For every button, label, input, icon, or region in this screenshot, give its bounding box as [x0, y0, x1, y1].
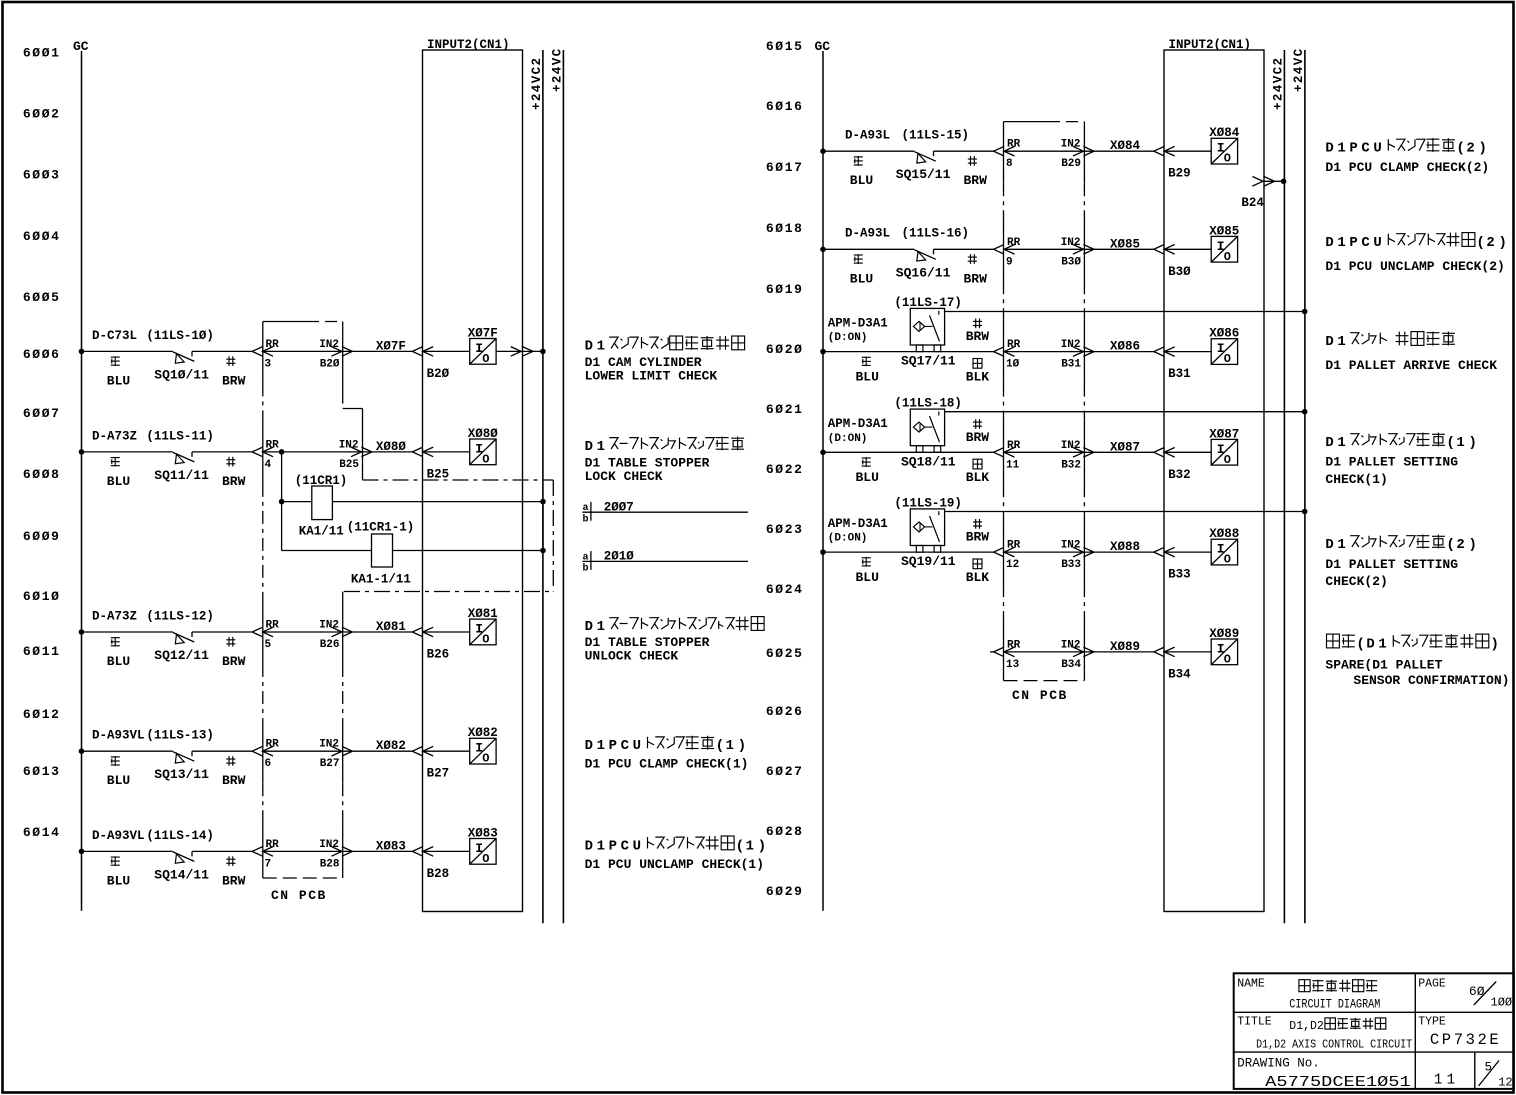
svg-text:1: 1 — [1456, 435, 1464, 451]
svg-text:XØ7F: XØ7F — [468, 326, 498, 340]
svg-text:(11LS-13): (11LS-13) — [146, 729, 214, 743]
svg-text:B29: B29 — [1168, 167, 1191, 181]
svg-text:(11LS-14): (11LS-14) — [146, 829, 214, 843]
wire into module — [423, 750, 470, 752]
svg-text:KA1-1/11: KA1-1/11 — [351, 573, 411, 587]
junction node b — [540, 548, 546, 554]
svg-text:C: C — [1361, 141, 1369, 157]
wire switch to RR connector — [192, 631, 252, 633]
wire GC to switch SQ11/11 — [82, 451, 173, 453]
junction GC bus row X081 — [79, 629, 85, 635]
svg-text:1: 1 — [746, 838, 754, 854]
module entry chevrons — [412, 627, 423, 637]
svg-text:O: O — [482, 352, 489, 366]
svg-text:O: O — [482, 752, 489, 766]
svg-text:XØ87: XØ87 — [1110, 440, 1140, 454]
svg-text:1: 1 — [597, 439, 605, 455]
svg-text:O: O — [1224, 352, 1231, 366]
svg-text:SQ17/11: SQ17/11 — [901, 354, 956, 369]
colour kanji 黒 — [973, 559, 982, 569]
wire to relay coil KA1-1/11 — [282, 550, 372, 552]
rail +24VC2 — [1283, 50, 1285, 923]
svg-text:KA1/11: KA1/11 — [299, 525, 344, 539]
limit switch SQ15/11 ((11LS-15)) — [914, 152, 935, 162]
svg-text:XØ81: XØ81 — [468, 607, 498, 621]
svg-text:SQ14/11: SQ14/11 — [154, 867, 209, 882]
wire into module — [1164, 248, 1211, 250]
junction GC bus row X082 — [79, 748, 85, 754]
I/O input point X07F — [470, 339, 496, 365]
svg-text:1: 1 — [597, 338, 605, 354]
svg-text:): ) — [1498, 235, 1507, 251]
wire RR to INPUT2 module — [262, 451, 412, 453]
svg-text:B27: B27 — [320, 758, 340, 770]
wire RR to INPUT2 module — [262, 850, 412, 852]
svg-text:B3Ø: B3Ø — [1168, 265, 1191, 279]
svg-text:1: 1 — [597, 619, 605, 635]
svg-text:SQ1Ø/11: SQ1Ø/11 — [154, 367, 209, 382]
svg-text:P: P — [609, 738, 617, 754]
module entry chevrons — [1154, 547, 1165, 557]
svg-text:XØ86: XØ86 — [1110, 340, 1140, 354]
connector RR pin 12 chevrons — [994, 547, 1005, 557]
connector IN2 pin B26 chevrons — [332, 627, 343, 637]
wire RR to INPUT2 module — [1004, 451, 1154, 453]
svg-text:6Ø15: 6Ø15 — [766, 39, 804, 54]
connector RR pin 4 chevrons — [252, 447, 263, 457]
svg-text:RR: RR — [266, 339, 280, 351]
wire RR to INPUT2 module (spare) — [1004, 651, 1154, 653]
I/O input point X080 — [470, 439, 496, 465]
svg-text:B31: B31 — [1168, 367, 1191, 381]
connector RR pin 8 chevrons — [994, 146, 1005, 156]
connector IN2 pin B20 chevrons — [332, 347, 343, 357]
title block frame — [1234, 973, 1514, 1089]
svg-text:D-C73L: D-C73L — [92, 329, 137, 343]
svg-text:6Ø17: 6Ø17 — [766, 160, 804, 175]
svg-text:INPUT2(CN1): INPUT2(CN1) — [427, 38, 510, 52]
svg-text:C: C — [621, 738, 629, 754]
svg-text:IN2: IN2 — [339, 439, 359, 451]
off-page reference 2010 — [590, 551, 592, 570]
relay coil KA1-1/11 (11CR1-1) — [372, 534, 393, 567]
svg-text:IN2: IN2 — [1061, 237, 1081, 249]
GC bus wire — [822, 51, 824, 911]
wire coil KA1/11 to junction — [332, 501, 543, 503]
svg-text:IN2: IN2 — [1061, 639, 1081, 651]
svg-text:D1 PCU CLAMP CHECK(2): D1 PCU CLAMP CHECK(2) — [1325, 160, 1489, 175]
svg-text:RR: RR — [1007, 339, 1021, 351]
svg-text:BLU: BLU — [107, 654, 130, 669]
svg-text:LOWER LIMIT CHECK: LOWER LIMIT CHECK — [585, 368, 718, 383]
svg-text:RR: RR — [1007, 237, 1021, 249]
svg-text:C: C — [621, 838, 629, 854]
connector IN2 pin B25 chevrons — [351, 447, 362, 457]
svg-text:1ØØ: 1ØØ — [1491, 996, 1513, 1010]
svg-text:(11LS-1Ø): (11LS-1Ø) — [146, 329, 214, 343]
svg-text:6ØØ8: 6ØØ8 — [23, 467, 61, 482]
svg-text:CN PCB: CN PCB — [1012, 688, 1068, 703]
GC bus wire — [81, 51, 83, 911]
svg-text:2Ø1Ø: 2Ø1Ø — [604, 550, 635, 564]
svg-text:IN2: IN2 — [319, 620, 339, 632]
svg-text:LOCK CHECK: LOCK CHECK — [585, 469, 663, 484]
svg-text:8: 8 — [1006, 158, 1013, 170]
svg-text:RR: RR — [1007, 139, 1021, 151]
svg-text:6Ø23: 6Ø23 — [766, 522, 804, 537]
svg-text:(11LS-15): (11LS-15) — [902, 129, 970, 143]
svg-text:6Ø26: 6Ø26 — [766, 704, 804, 719]
wire into module — [1164, 451, 1211, 453]
svg-text:XØ81: XØ81 — [376, 620, 406, 634]
svg-text:BLU: BLU — [856, 369, 879, 384]
svg-text:6ØØ5: 6ØØ5 — [23, 290, 61, 305]
connector IN2 pin B28 chevrons — [332, 847, 343, 857]
junction on +24VC rail — [1302, 309, 1308, 315]
I/O input point X081 — [470, 619, 496, 645]
svg-text:B26: B26 — [427, 648, 450, 662]
wire into module — [1164, 651, 1211, 653]
svg-text:D1 PALLET SETTING: D1 PALLET SETTING — [1325, 557, 1458, 572]
colour kanji 青 — [111, 856, 120, 858]
relay coil KA1/11 (11CR1) — [312, 486, 333, 520]
module entry chevrons — [1154, 448, 1165, 458]
limit switch SQ14/11 ((11LS-14)) — [173, 852, 194, 862]
svg-text:IN2: IN2 — [319, 339, 339, 351]
svg-text:XØ89: XØ89 — [1110, 640, 1140, 654]
svg-text:6Ø2Ø: 6Ø2Ø — [766, 342, 804, 357]
svg-text:6ØØ9: 6ØØ9 — [23, 529, 61, 544]
wire switch to RR connector — [934, 150, 994, 152]
svg-text:(: ( — [1446, 537, 1455, 553]
svg-text:XØ85: XØ85 — [1110, 237, 1140, 251]
svg-text:D-A93L: D-A93L — [845, 227, 890, 241]
svg-text:(11LS-17): (11LS-17) — [894, 296, 962, 310]
svg-text:CIRCUIT DIAGRAM: CIRCUIT DIAGRAM — [1289, 998, 1380, 1012]
svg-text:O: O — [482, 452, 489, 466]
connector RR pin 11 chevrons — [994, 448, 1005, 458]
junction GC bus row X080 — [79, 449, 85, 455]
svg-text:CN PCB: CN PCB — [271, 888, 327, 903]
svg-text:(D:ON): (D:ON) — [828, 332, 868, 344]
svg-text:D-A93L: D-A93L — [845, 129, 890, 143]
connector IN2 pin B33 chevrons — [1073, 547, 1084, 557]
svg-text:(: ( — [1356, 637, 1365, 653]
svg-text:B32: B32 — [1061, 459, 1081, 471]
svg-text:RR: RR — [266, 839, 280, 851]
svg-text:): ) — [1468, 435, 1477, 451]
svg-text:B33: B33 — [1168, 568, 1191, 582]
svg-text:XØ87: XØ87 — [1209, 427, 1239, 441]
svg-text:TYPE: TYPE — [1418, 1016, 1446, 1029]
svg-text:B27: B27 — [427, 767, 450, 781]
connector RR pin 7 chevrons — [252, 847, 263, 857]
svg-text:6Ø28: 6Ø28 — [766, 824, 804, 839]
svg-text:6: 6 — [265, 758, 272, 770]
svg-text:B26: B26 — [320, 639, 340, 651]
svg-text:): ) — [758, 838, 767, 854]
wire switch to RR connector — [192, 451, 252, 453]
svg-text:6ØØ1: 6ØØ1 — [23, 46, 61, 61]
svg-text:a: a — [583, 503, 589, 514]
wire GC to switch SQ15/11 — [823, 150, 914, 152]
svg-text:O: O — [1224, 453, 1231, 467]
svg-text:5: 5 — [265, 639, 272, 651]
svg-text:O: O — [1224, 250, 1231, 264]
off-page reference 2007 — [590, 502, 592, 521]
svg-text:(11LS-19): (11LS-19) — [894, 496, 962, 510]
CN PCB cable boundary (right half) — [1004, 121, 1049, 123]
svg-text:B34: B34 — [1168, 667, 1191, 681]
svg-text:(: ( — [1456, 141, 1465, 157]
colour kanji 茶 — [228, 356, 230, 366]
wire RR to INPUT2 module — [1004, 351, 1154, 353]
svg-text:b: b — [583, 514, 589, 526]
wire sensor BRW to +24VC rail — [945, 511, 1305, 513]
colour kanji 青 — [111, 457, 120, 459]
svg-text:XØ85: XØ85 — [1209, 224, 1239, 238]
wire GC through sensor SQ17/11 to RR — [823, 351, 994, 353]
svg-text:SENSOR CONFIRMATION): SENSOR CONFIRMATION) — [1353, 673, 1509, 688]
I/O input point X088 — [1211, 539, 1237, 565]
svg-text:6Ø16: 6Ø16 — [766, 99, 804, 114]
title 電気回路線図 — [1299, 980, 1310, 992]
wire linking relay outputs — [542, 502, 544, 551]
svg-text:1: 1 — [597, 738, 605, 754]
svg-text:BRW: BRW — [222, 373, 246, 388]
svg-text:XØ89: XØ89 — [1209, 627, 1239, 641]
svg-text:P: P — [609, 838, 617, 854]
svg-text:O: O — [1224, 152, 1231, 166]
I/O input point X086 — [1211, 339, 1237, 365]
svg-text:2: 2 — [1466, 141, 1474, 157]
rail +24VC2 — [542, 50, 544, 923]
wire switch to RR connector — [192, 850, 252, 852]
svg-text:BLU: BLU — [856, 570, 879, 585]
svg-text:XØ84: XØ84 — [1209, 126, 1240, 140]
fraction slash — [1474, 982, 1496, 1006]
svg-text:D-A73Z: D-A73Z — [92, 429, 137, 443]
svg-text:6Ø11: 6Ø11 — [23, 644, 61, 659]
junction B24 on +24VC2 — [1281, 179, 1287, 185]
svg-text:1: 1 — [1378, 637, 1386, 653]
svg-text:IN2: IN2 — [1061, 139, 1081, 151]
connector RR pin 3 chevrons — [252, 347, 263, 357]
svg-text:D1 PCU UNCLAMP CHECK(1): D1 PCU UNCLAMP CHECK(1) — [585, 857, 764, 872]
svg-text:B34: B34 — [1061, 659, 1081, 671]
wire RR to INPUT2 module — [262, 350, 412, 352]
svg-text:11: 11 — [1434, 1073, 1459, 1089]
svg-text:O: O — [1224, 553, 1231, 567]
svg-text:B25: B25 — [339, 459, 359, 471]
svg-text:(11LS-11): (11LS-11) — [146, 429, 214, 443]
colour kanji 青 — [854, 254, 863, 256]
svg-text:(: ( — [1476, 235, 1485, 251]
module entry chevrons — [412, 347, 423, 357]
I/O input point X082 — [470, 738, 496, 764]
svg-text:D1 PALLET SETTING: D1 PALLET SETTING — [1325, 455, 1458, 470]
svg-text:1: 1 — [597, 838, 605, 854]
svg-text:(: ( — [736, 838, 745, 854]
svg-text:6Ø25: 6Ø25 — [766, 646, 804, 661]
junction GC bus row X086 — [820, 349, 826, 355]
svg-text:DRAWING No.: DRAWING No. — [1237, 1056, 1320, 1070]
svg-text:A5775DCEE1Ø51: A5775DCEE1Ø51 — [1265, 1075, 1411, 1091]
svg-text:(11CR1): (11CR1) — [295, 474, 348, 488]
svg-text:BRW: BRW — [222, 773, 246, 788]
svg-text:6Ø18: 6Ø18 — [766, 221, 804, 236]
svg-text:D: D — [585, 838, 593, 854]
svg-text:1Ø: 1Ø — [1006, 359, 1020, 371]
svg-text:U: U — [1373, 235, 1381, 251]
svg-text:1: 1 — [1337, 235, 1345, 251]
svg-text:6Ø1Ø: 6Ø1Ø — [23, 589, 61, 604]
svg-text:5: 5 — [1485, 1061, 1493, 1075]
wire X07F to +24VC2 rail — [496, 350, 543, 352]
svg-text:SQ11/11: SQ11/11 — [154, 468, 209, 483]
svg-text:(D:ON): (D:ON) — [828, 533, 868, 545]
wire RR to INPUT2 module — [1004, 248, 1154, 250]
svg-text:1: 1 — [1337, 141, 1345, 157]
module entry chevrons — [1154, 347, 1165, 357]
colour kanji 茶 — [228, 856, 230, 866]
connector RR pin 9 chevrons — [994, 245, 1005, 255]
svg-text:6ØØ7: 6ØØ7 — [23, 406, 61, 421]
svg-text:APM-D3A1: APM-D3A1 — [828, 417, 888, 431]
svg-text:+24VC: +24VC — [550, 47, 564, 92]
svg-text:D1 PALLET ARRIVE CHECK: D1 PALLET ARRIVE CHECK — [1325, 358, 1497, 373]
wire into module — [423, 850, 470, 852]
chevrons to +24VC2 — [511, 347, 522, 357]
limit switch SQ13/11 ((11LS-13)) — [173, 752, 194, 762]
wire RR to INPUT2 module — [262, 750, 412, 752]
wire GC through sensor SQ19/11 to RR — [823, 551, 994, 553]
svg-text:+24VC2: +24VC2 — [530, 57, 544, 110]
wire GC to switch SQ10/11 — [82, 350, 173, 352]
wire into module — [423, 451, 470, 453]
svg-text:O: O — [482, 633, 489, 647]
wire RR to INPUT2 module — [1004, 551, 1154, 553]
connector IN2 pin B31 chevrons — [1073, 347, 1084, 357]
svg-text:6Ø24: 6Ø24 — [766, 582, 804, 597]
module entry chevrons — [412, 847, 423, 857]
svg-text:+24VC: +24VC — [1292, 47, 1306, 92]
svg-text:IN2: IN2 — [1061, 339, 1081, 351]
svg-text:D: D — [585, 738, 593, 754]
connector RR pin 5 chevrons — [252, 627, 263, 637]
junction relay branch — [279, 499, 285, 505]
module entry chevrons — [1154, 647, 1165, 657]
junction on +24VC rail — [1302, 509, 1308, 515]
junction GC bus row X088 — [820, 549, 826, 555]
svg-text:U: U — [1373, 141, 1381, 157]
svg-text:3: 3 — [265, 358, 272, 370]
wire switch to RR connector — [192, 750, 252, 752]
svg-text:XØ83: XØ83 — [376, 839, 406, 853]
connector IN2 pin B32 chevrons — [1073, 448, 1084, 458]
spare input row X089 — [990, 651, 994, 653]
svg-text:RR: RR — [1007, 639, 1021, 651]
svg-text:B33: B33 — [1061, 559, 1081, 571]
wire into module — [1164, 150, 1211, 152]
wire coil KA1-1/11 to junction — [393, 550, 544, 552]
svg-text:D: D — [1325, 537, 1333, 553]
svg-text:SQ19/11: SQ19/11 — [901, 554, 956, 569]
svg-text:(D:ON): (D:ON) — [828, 433, 868, 445]
CN PCB cable boundary (left half) — [263, 321, 307, 323]
wire RR to INPUT2 module — [1004, 150, 1154, 152]
fraction slash — [1479, 1061, 1500, 1087]
svg-text:6Ø22: 6Ø22 — [766, 462, 804, 477]
svg-text:(: ( — [1446, 435, 1455, 451]
junction on +24VC2 rail — [540, 349, 546, 355]
svg-text:BRW: BRW — [966, 329, 990, 344]
wire to relay coil KA1/11 — [282, 501, 312, 503]
connector RR pin 13 chevrons — [994, 647, 1005, 657]
svg-text:1: 1 — [726, 738, 734, 754]
junction GC bus row X084 — [820, 148, 826, 154]
limit switch SQ12/11 ((11LS-12)) — [173, 633, 194, 643]
svg-text:D1 PCU CLAMP CHECK(1): D1 PCU CLAMP CHECK(1) — [585, 757, 749, 772]
svg-text:XØ8Ø: XØ8Ø — [468, 427, 499, 441]
svg-text:+24VC2: +24VC2 — [1271, 57, 1285, 110]
junction row 6008 — [279, 449, 285, 455]
wire into module — [1164, 351, 1211, 353]
svg-text:BLU: BLU — [107, 373, 130, 388]
wire sensor BRW to +24VC rail — [945, 311, 1305, 313]
svg-text:P: P — [1349, 141, 1357, 157]
svg-text:O: O — [482, 852, 489, 866]
svg-text:(11LS-12): (11LS-12) — [146, 609, 214, 623]
wire GC through sensor SQ18/11 to RR — [823, 451, 994, 453]
colour kanji 茶 — [970, 254, 972, 264]
svg-text:B2Ø: B2Ø — [320, 358, 340, 370]
svg-text:RR: RR — [1007, 440, 1021, 452]
svg-text:B25: B25 — [427, 467, 450, 481]
svg-text:XØ84: XØ84 — [1110, 139, 1141, 153]
svg-text:B29: B29 — [1061, 158, 1081, 170]
svg-text:SQ15/11: SQ15/11 — [896, 167, 951, 182]
colour kanji 青 — [862, 356, 871, 358]
svg-text:B31: B31 — [1061, 359, 1081, 371]
svg-text:IN2: IN2 — [1061, 540, 1081, 552]
svg-text:U: U — [633, 738, 641, 754]
colour kanji 茶 — [228, 756, 230, 766]
svg-text:CP732E: CP732E — [1430, 1031, 1501, 1049]
svg-text:BRW: BRW — [222, 654, 246, 669]
svg-text:SQ18/11: SQ18/11 — [901, 454, 956, 469]
I/O input point X084 — [1211, 138, 1237, 164]
svg-text:UNLOCK CHECK: UNLOCK CHECK — [585, 649, 679, 664]
svg-text:D: D — [1325, 235, 1333, 251]
rail +24VC — [562, 50, 564, 923]
svg-text:BLU: BLU — [850, 271, 873, 286]
wire switch to RR connector — [192, 350, 252, 352]
svg-text:6Ø21: 6Ø21 — [766, 402, 804, 417]
svg-text:BLU: BLU — [856, 470, 879, 485]
svg-text:P: P — [1349, 235, 1357, 251]
wire B24 to +24VC2 rail — [1265, 180, 1284, 182]
svg-text:D-A73Z: D-A73Z — [92, 609, 137, 623]
svg-text:TITLE: TITLE — [1237, 1016, 1272, 1029]
svg-text:XØ83: XØ83 — [468, 826, 498, 840]
svg-text:2: 2 — [1456, 537, 1464, 553]
connector RR pin 10 chevrons — [994, 347, 1005, 357]
svg-text:D: D — [585, 338, 593, 354]
svg-text:BRW: BRW — [222, 873, 246, 888]
svg-text:BLU: BLU — [107, 873, 130, 888]
INPUT2(CN1) module box — [423, 50, 523, 912]
